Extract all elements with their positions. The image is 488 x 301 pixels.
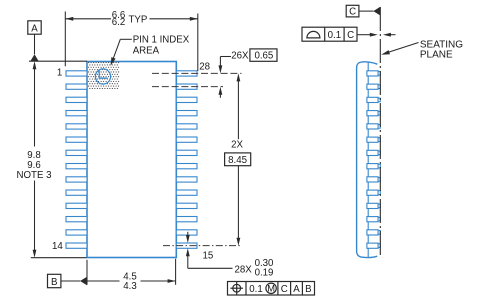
side view lead 18 [367,203,380,208]
front view package body [87,62,176,258]
pin 28 [176,71,197,76]
svg-text:A: A [293,284,300,295]
svg-text:28X: 28X [235,264,253,275]
pin 21 [176,164,197,169]
svg-text:TYP: TYP [129,14,148,25]
datum C symbol [346,5,380,17]
pin 18 [176,203,197,208]
side view lead 24 [367,124,380,129]
datum A symbol [28,21,41,61]
tolerance zone arrows at seating plane [357,33,396,37]
svg-text:1: 1 [57,68,62,79]
pin 13 [66,230,87,235]
side view lead 17 [367,217,380,222]
side view lead 19 [367,190,380,195]
dimension 28X 0.30/0.19 (lead width) [186,232,274,279]
pin 9 [66,177,87,182]
svg-text:0.1: 0.1 [249,284,262,295]
side view lead 23 [367,137,380,142]
feature control frame: position 0.1 M C A B [228,282,315,296]
svg-text:0.65: 0.65 [254,50,273,61]
dimension 4.5/4.3 (body width) [87,259,176,292]
centerline pin 28 [152,72,242,74]
svg-text:PLANE: PLANE [420,49,453,60]
pin 4 [66,111,87,116]
pin 1 index circle [95,69,110,84]
svg-text:4.3: 4.3 [123,281,136,292]
svg-text:2X: 2X [231,139,243,150]
svg-text:28: 28 [199,61,210,72]
svg-text:B: B [51,277,57,288]
pin 22 [176,150,197,155]
dimension 26X 0.65 (lead pitch) [219,49,278,98]
pin 26 [176,97,197,102]
pin 23 [176,137,197,142]
profile tolerance frame 0.1 C (seating plane) [302,27,357,41]
side view lead 15 [367,243,380,248]
pin 24 [176,124,197,129]
pin 20 [176,177,197,182]
pin 12 [66,217,87,222]
pin 2 [66,84,87,89]
svg-text:C: C [281,284,288,295]
dimension 9.8/9.6 NOTE 3 (body length) [17,61,52,258]
dimension 2X 8.45 (pin 28 to pin 15 centerline span) [225,73,251,245]
pin 1 index area stipple [89,63,119,89]
svg-text:NOTE 3: NOTE 3 [17,170,52,181]
side view lead 26 [367,97,380,102]
pin 11 [66,203,87,208]
pin 1 index corner mark [99,70,107,78]
svg-text:8.45: 8.45 [228,155,247,166]
side view package body [357,62,378,258]
pin 15 [176,243,197,248]
dimension 6.6/6.2 TYP (overall width) [65,10,198,71]
side view lead 16 [367,230,380,235]
svg-text:14: 14 [52,241,63,252]
svg-text:PIN 1 INDEX: PIN 1 INDEX [133,35,190,46]
pin 1 [66,71,87,76]
pin 14 [66,243,87,248]
extension line of body bottom edge [31,257,87,259]
pin 19 [176,190,197,195]
svg-text:0.19: 0.19 [255,268,274,279]
pin 16 [176,230,197,235]
pin 5 [66,124,87,129]
side view lead 25 [367,111,380,116]
svg-text:C: C [349,6,356,17]
label SEATING PLANE with leader [381,39,463,60]
pin 27 [176,84,197,89]
side view lead 21 [367,164,380,169]
svg-text:B: B [305,284,311,295]
svg-text:AREA: AREA [133,46,160,57]
svg-text:26X: 26X [231,50,249,61]
leader and label PIN 1 INDEX AREA [111,35,190,66]
pin 25 [176,111,197,116]
svg-text:6.2: 6.2 [112,17,125,28]
svg-text:C: C [347,30,354,41]
side view lead 27 [367,84,380,89]
centerline pin 27 [152,86,223,88]
extension line of body top edge [29,60,87,62]
svg-text:0.1: 0.1 [328,30,341,41]
pin 3 [66,97,87,102]
side view lead 22 [367,150,380,155]
svg-text:M: M [267,284,275,294]
pin 8 [66,164,87,169]
seating plane line [379,7,381,257]
side view lead 28 [367,71,380,76]
datum B symbol [48,274,88,288]
pin 6 [66,137,87,142]
pin 17 [176,217,197,222]
pin 10 [66,190,87,195]
pin 7 [66,150,87,155]
svg-text:15: 15 [203,251,214,262]
side view lead 20 [367,177,380,182]
centerline pin 15 [163,245,242,247]
svg-text:A: A [31,24,38,35]
